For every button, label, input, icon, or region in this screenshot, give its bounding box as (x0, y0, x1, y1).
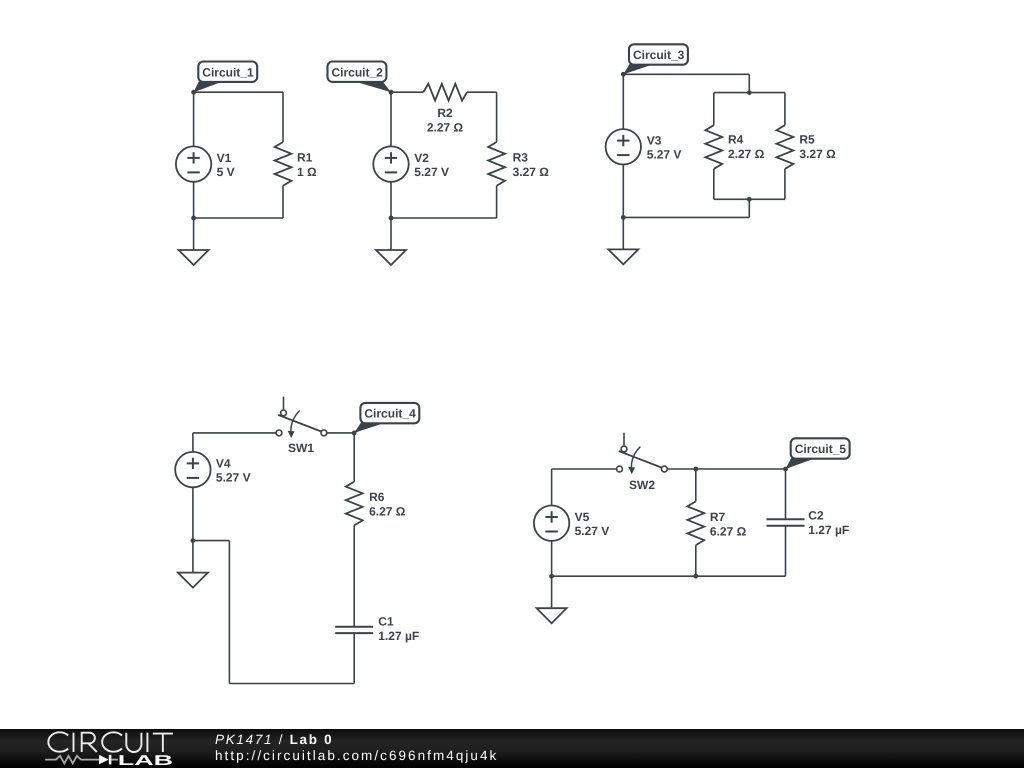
svg-text:C1: C1 (378, 614, 394, 628)
switch SW2 lever (619, 451, 662, 468)
flag label Circuit_3 wedge (623, 64, 654, 74)
wire SW2 to Circuit_5 node (667, 468, 785, 470)
node parallel top junction (747, 90, 752, 95)
node bottom junction (191, 216, 196, 221)
wire V4 to SW1 (193, 432, 276, 434)
ground stem wire (622, 217, 624, 249)
wire V2 bottom lead (390, 182, 392, 218)
svg-text:V3: V3 (647, 134, 662, 148)
flag label Circuit_2 box (328, 62, 387, 82)
svg-text:R4: R4 (728, 132, 744, 146)
svg-text:Circuit_1: Circuit_1 (202, 65, 254, 79)
resistor R5 (777, 125, 794, 169)
logo resistor squiggle (45, 756, 99, 764)
svg-text:V5: V5 (575, 510, 590, 524)
svg-text:SW2: SW2 (629, 478, 655, 492)
svg-text:R3: R3 (513, 150, 529, 164)
wire R6 top lead (353, 433, 355, 482)
svg-text:R6: R6 (369, 490, 385, 504)
svg-text:R1: R1 (297, 150, 313, 164)
wire R1 bottom lead (282, 186, 284, 218)
wire bottom net (623, 216, 749, 218)
resistor R7 (687, 501, 704, 545)
ground stem wire (193, 218, 195, 250)
svg-text:R5: R5 (799, 132, 815, 146)
wire V5 bottom lead (551, 541, 553, 576)
svg-text:5.27 V: 5.27 V (216, 470, 251, 484)
switch SW1 left terminal (pin 1) (276, 430, 282, 436)
wire R5 bottom lead (784, 169, 786, 199)
resistor R3 (488, 142, 505, 186)
svg-text:Circuit_5: Circuit_5 (795, 442, 847, 456)
node Circuit_3 top (621, 72, 626, 77)
ground stem wire (390, 218, 392, 250)
Circuit_4 schematic (175, 397, 419, 684)
node Circuit_4 top (352, 431, 357, 436)
node ground junction (191, 538, 196, 543)
switch SW1 toggle arrow (291, 411, 300, 432)
ground (178, 573, 208, 588)
ground (537, 608, 567, 623)
svg-text:V2: V2 (414, 151, 429, 165)
svg-text:3.27 Ω: 3.27 Ω (799, 147, 836, 161)
Circuit_5 schematic (534, 433, 850, 624)
flag label Circuit_2 wedge (353, 81, 391, 92)
wire R4 top lead (713, 93, 715, 126)
wire return to ground junction (193, 540, 230, 542)
flag label Circuit_1 box (198, 62, 257, 82)
switch SW2 left terminal (pin 1) (617, 466, 623, 472)
node bottom junction (621, 215, 626, 220)
svg-text:5.27 V: 5.27 V (414, 165, 449, 179)
wire V5 top lead (551, 469, 553, 506)
wire V3 bottom lead (622, 165, 624, 218)
node R7 bottom junction (693, 574, 698, 579)
Circuit_3 schematic (606, 44, 836, 264)
switch SW2 right terminal (pin 3) (662, 466, 668, 472)
wire V4 top lead (192, 433, 194, 452)
node bottom junction (389, 216, 394, 221)
svg-text:3.27 Ω: 3.27 Ω (513, 165, 550, 179)
svg-text:LAB: LAB (118, 753, 173, 768)
svg-text:V1: V1 (217, 151, 232, 165)
switch SW2 upper-throw stub wire (623, 433, 625, 446)
voltage source V1 (176, 146, 211, 181)
wire V1 bottom lead (193, 182, 195, 218)
wire left return riser (228, 541, 230, 684)
switch SW1 upper-throw stub wire (283, 397, 285, 410)
Circuit_1 schematic (176, 62, 317, 266)
switch SW2 toggle arrow (631, 447, 640, 468)
ground stem wire (192, 541, 194, 573)
voltage source V4 (175, 452, 210, 487)
wire R1 top lead (282, 92, 284, 142)
flag label Circuit_5 box (791, 438, 850, 458)
resistor R2 (423, 84, 467, 101)
svg-text:Circuit_4: Circuit_4 (364, 407, 416, 421)
resistor R1 (275, 142, 292, 186)
svg-text:1.27 µF: 1.27 µF (808, 523, 849, 537)
wire from parallel pair down (748, 199, 750, 217)
svg-text:5 V: 5 V (217, 165, 235, 179)
svg-text:R7: R7 (710, 510, 726, 524)
wire V3 top lead (622, 74, 624, 129)
voltage source V3 (606, 129, 641, 164)
wire V1 top lead (193, 92, 195, 146)
wire R7 top lead (695, 469, 697, 501)
flag label Circuit_3 box (629, 44, 688, 64)
svg-text:C2: C2 (808, 508, 824, 522)
node Circuit_1 top (191, 90, 196, 95)
svg-text:1 Ω: 1 Ω (297, 165, 317, 179)
resistor R4 (705, 125, 722, 169)
wire top net Circuit_3 (623, 73, 749, 75)
svg-text:1.27 µF: 1.27 µF (378, 629, 419, 643)
logo diode (99, 755, 109, 765)
switch SW1 right terminal (pin 3) (321, 430, 327, 436)
flag label Circuit_1 wedge (194, 81, 224, 92)
wire SW1 to Circuit_4 node (327, 432, 354, 434)
wire C2 top lead (785, 469, 787, 519)
svg-text:SW1: SW1 (288, 441, 314, 455)
node Circuit_5 top (783, 467, 788, 472)
node ground junction (549, 574, 554, 579)
flag label Circuit_5 wedge (786, 458, 817, 469)
flag label Circuit_4 wedge (354, 423, 386, 433)
wire V4 bottom lead (192, 487, 194, 540)
wire R3 bottom lead (496, 186, 498, 218)
wire V5 to SW2 (552, 468, 617, 470)
wire parallel bottom rail (714, 198, 785, 200)
logo word CIRCUIT (48, 732, 173, 752)
voltage source V5 (534, 506, 569, 541)
ground (179, 250, 209, 265)
svg-text:6.27 Ω: 6.27 Ω (710, 524, 747, 538)
wire V2 top lead (390, 92, 392, 146)
flag label Circuit_4 box (360, 403, 419, 423)
wire C1 bottom lead (353, 633, 355, 683)
ground (376, 250, 406, 265)
svg-text:2.27 Ω: 2.27 Ω (728, 147, 765, 161)
wire R2 right lead (467, 91, 497, 93)
switch SW1 upper terminal (pin 2) (281, 410, 287, 416)
CircuitLab logo (0, 729, 185, 768)
svg-text:R2: R2 (437, 106, 453, 120)
wire R6 to C1 lead (353, 525, 355, 626)
Circuit_2 schematic (328, 62, 550, 266)
wire R4 bottom lead (713, 169, 715, 199)
wire top net Circuit_1 (194, 91, 283, 93)
capacitor C2 (767, 519, 805, 525)
svg-text:Circuit_2: Circuit_2 (332, 65, 384, 79)
wire parallel top rail (714, 92, 785, 94)
wire bottom net (552, 575, 786, 577)
voltage source V2 (373, 146, 408, 181)
ground stem wire (551, 576, 553, 608)
svg-text:6.27 Ω: 6.27 Ω (369, 505, 406, 519)
resistor R6 (346, 482, 363, 526)
wire bottom return net (229, 683, 354, 685)
svg-text:V4: V4 (216, 456, 231, 470)
wire C2 bottom lead (785, 526, 787, 577)
ground (608, 249, 638, 264)
wire R5 top lead (784, 93, 786, 126)
node R7 top junction (693, 467, 698, 472)
footer circuit title (215, 732, 498, 764)
wire to parallel pair (748, 74, 750, 92)
svg-text:5.27 V: 5.27 V (575, 524, 610, 538)
svg-text:2.27 Ω: 2.27 Ω (427, 120, 464, 134)
node Circuit_2 top (389, 90, 394, 95)
switch SW1 lever (278, 415, 321, 432)
wire R7 bottom lead (695, 545, 697, 576)
switch SW2 upper terminal (pin 2) (621, 446, 627, 452)
svg-text:5.27 V: 5.27 V (647, 148, 682, 162)
svg-text:Circuit_3: Circuit_3 (633, 48, 685, 62)
wire bottom net (194, 217, 283, 219)
wire R3 top lead (496, 92, 498, 142)
capacitor C1 (335, 627, 373, 633)
wire top net Circuit_2 (391, 91, 423, 93)
node parallel bottom junction (747, 197, 752, 202)
wire bottom net (391, 217, 497, 219)
